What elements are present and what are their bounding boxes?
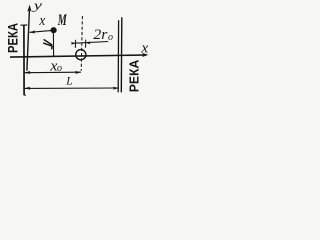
svg-text:x: x	[39, 13, 46, 29]
2r0 left arrowhead	[71, 42, 76, 45]
left bank wall	[23, 25, 25, 95]
2r0 right extension tick	[85, 40, 87, 48]
svg-text:L: L	[65, 76, 72, 88]
M ordinate line	[52, 33, 54, 57]
svg-text:2r: 2r	[93, 27, 107, 43]
whirlpool circle	[76, 50, 86, 60]
L left arrowhead	[24, 87, 30, 90]
svg-text:o: o	[108, 32, 113, 43]
point M dot	[51, 27, 57, 33]
background paper	[0, 0, 159, 118]
svg-text:M: M	[57, 12, 67, 29]
y-axis arrowhead	[27, 5, 31, 12]
x0 left arrowhead	[24, 71, 30, 74]
svg-text:o: o	[57, 63, 62, 74]
svg-text:РЕКА: РЕКА	[5, 23, 21, 53]
L dimension line	[25, 87, 119, 89]
right bank wall outer line	[120, 17, 123, 92]
L right arrowhead	[113, 87, 119, 90]
right bank wall inner line	[117, 20, 119, 92]
y coordinate glyph	[44, 40, 53, 49]
svg-text:РЕКА: РЕКА	[127, 59, 142, 92]
y-axis	[27, 11, 30, 71]
x coordinate dimension arrow	[30, 31, 51, 33]
svg-text:x: x	[140, 41, 148, 57]
2r0 dimension line	[72, 42, 108, 44]
2r0 left extension tick	[74, 40, 76, 48]
x0 right arrowhead	[75, 71, 81, 74]
2r0 right arrowhead	[86, 41, 91, 44]
left bank bottom hook	[24, 94, 26, 97]
x-axis	[10, 55, 146, 57]
circle axis dashed line	[81, 16, 82, 71]
left bank top cap	[21, 24, 28, 26]
x-axis arrowhead	[142, 53, 148, 57]
x0 dimension line	[25, 71, 81, 74]
x dimension arrowhead	[29, 30, 35, 33]
